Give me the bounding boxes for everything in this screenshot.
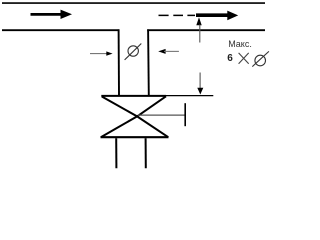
wire branch left wall — [118, 29, 120, 95]
valve bottom edge — [101, 136, 169, 138]
flow arrow right — [196, 11, 238, 21]
wire top pipe wall — [2, 2, 265, 4]
valve diagonal A — [102, 97, 169, 138]
wire dashed flow centerline right — [159, 14, 196, 16]
wire lower pipe left — [115, 138, 117, 168]
wire branch right wall — [147, 29, 150, 95]
valve top edge — [101, 95, 166, 97]
svg-text:6: 6 — [227, 53, 233, 64]
valve stem — [138, 114, 185, 116]
label multiplication sign — [239, 53, 249, 64]
wire lower pipe wall left segment — [2, 29, 119, 31]
valve diagonal B — [101, 96, 166, 137]
diameter symbol at branch — [125, 44, 142, 60]
wire extension line right of valve — [166, 95, 213, 97]
valve handle T-bar — [184, 103, 186, 126]
label diameter symbol in 6xD — [252, 51, 269, 66]
dimension arrow down — [199, 73, 201, 89]
dimension arrow toward left branch wall — [90, 53, 107, 55]
wire lower pipe wall right segment — [147, 29, 265, 31]
svg-text:Макс.: Макс. — [228, 39, 252, 49]
wire lower pipe right — [145, 138, 147, 168]
dimension arrow toward right branch wall — [158, 49, 165, 54]
flow arrow left — [31, 10, 73, 19]
dimension arrow up — [196, 17, 201, 25]
